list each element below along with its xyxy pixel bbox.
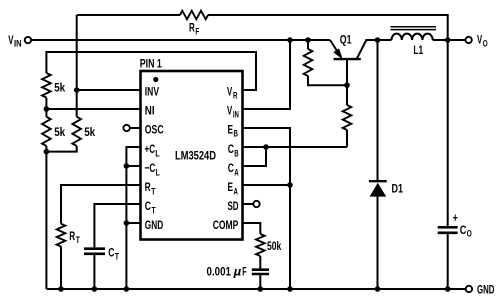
terminal VIN: [25, 37, 31, 43]
label 50k: [267, 239, 281, 253]
label CT: [108, 246, 119, 263]
wire CA to CB: [243, 147, 267, 166]
resistor 5k lower-left: [42, 117, 51, 146]
label PIN 1: [140, 56, 162, 70]
junction CL-ground: [124, 286, 130, 292]
wire EA: [243, 184, 291, 186]
wire -CL stub: [126, 165, 140, 167]
resistor 50k: [256, 234, 265, 256]
wire feedback top from INV node to output node: [77, 15, 448, 40]
svg-text:GND: GND: [477, 283, 495, 297]
junction CO-ground: [445, 286, 451, 292]
svg-text:E: E: [228, 180, 234, 194]
svg-text:PIN 1: PIN 1: [140, 56, 162, 70]
svg-text:µ: µ: [233, 264, 242, 278]
wire NI: [46, 108, 140, 110]
svg-text:O: O: [467, 228, 472, 239]
svg-text:−C: −C: [145, 161, 156, 175]
transistor Q1 emitter arrowhead: [334, 49, 342, 58]
svg-text:T: T: [151, 186, 155, 197]
svg-text:D1: D1: [392, 182, 404, 196]
svg-text:R: R: [69, 229, 75, 243]
svg-text:C: C: [460, 223, 467, 237]
terminal GND: [466, 286, 472, 292]
svg-text:0.001: 0.001: [207, 264, 232, 278]
svg-text:5k: 5k: [54, 80, 65, 94]
svg-text:C: C: [108, 246, 114, 260]
svg-text:T: T: [76, 235, 80, 246]
label RF: [189, 21, 199, 38]
label 5k lower-left: [54, 125, 65, 139]
svg-text:E: E: [228, 122, 234, 136]
svg-text:A: A: [234, 167, 238, 178]
svg-text:IN: IN: [14, 39, 22, 50]
wire RT: [61, 185, 141, 289]
svg-text:50k: 50k: [267, 239, 281, 253]
svg-text:F: F: [195, 27, 199, 38]
pin label OSC: [145, 122, 164, 136]
diode D1 triangle: [370, 183, 387, 197]
junction NI-divider: [44, 106, 50, 112]
resistor 5k upper: [42, 73, 51, 98]
resistor Q1 pull-up: [304, 49, 313, 76]
svg-text:O: O: [483, 38, 488, 49]
junction EA-EB: [287, 182, 293, 188]
junction RT-ground: [58, 286, 64, 292]
wire CT: [94, 204, 140, 289]
pin label VR: [227, 84, 238, 101]
junction D1-ground: [375, 286, 381, 292]
label 0.001 uF: [207, 264, 247, 278]
label L1: [413, 43, 423, 57]
pin label VIN: [227, 103, 239, 120]
label 5k upper: [54, 80, 65, 94]
svg-text:R: R: [233, 91, 238, 102]
junction GND pin: [124, 220, 130, 226]
wire VIN rail: [31, 39, 330, 41]
junction pullup-rail: [305, 37, 311, 43]
junction output node: [445, 37, 451, 43]
junction -CL: [124, 163, 130, 169]
wire CB to Q1 base network: [243, 146, 348, 148]
svg-text:C: C: [228, 161, 234, 175]
svg-text:R: R: [145, 180, 151, 194]
wire base vertical: [346, 60, 348, 148]
junction divider bottom: [44, 149, 50, 155]
svg-text:COMP: COMP: [213, 218, 239, 232]
pin label EA: [228, 180, 238, 197]
svg-text:L1: L1: [413, 43, 423, 57]
svg-text:T: T: [115, 251, 119, 262]
pin label INV: [145, 84, 160, 98]
svg-text:IN: IN: [233, 110, 239, 121]
label CO plus: [453, 211, 458, 225]
label LM3524D: [175, 149, 216, 163]
wire OSC stub: [130, 127, 141, 129]
label CO: [460, 223, 472, 240]
wire COMP: [243, 223, 261, 289]
junction CT-ground: [92, 286, 98, 292]
transistor Q1 collector line: [357, 40, 392, 59]
pin label GND: [145, 218, 163, 232]
wire ground rail: [46, 288, 465, 290]
pin label -CL: [145, 161, 160, 178]
label GND terminal: [477, 283, 495, 297]
svg-text:L: L: [156, 167, 160, 178]
wire L1 to output node: [433, 39, 466, 41]
junction collector-D1: [375, 37, 381, 43]
wire 5k3 bottom to left rail: [46, 146, 76, 152]
resistor 5k lower-right: [72, 117, 81, 146]
capacitor CO plates: [438, 227, 458, 233]
transistor Q1 base bar: [334, 58, 361, 60]
pin label SD: [228, 199, 239, 213]
svg-text:OSC: OSC: [145, 122, 164, 136]
svg-text:SD: SD: [228, 199, 239, 213]
diode D1 cathode bar: [369, 180, 387, 182]
svg-text:GND: GND: [145, 218, 163, 232]
svg-text:A: A: [234, 186, 238, 197]
svg-text:T: T: [152, 205, 156, 216]
svg-text:+: +: [453, 211, 458, 225]
svg-text:Q1: Q1: [340, 33, 352, 47]
wire D1 vertical: [377, 40, 379, 289]
resistor RT: [57, 224, 66, 247]
transistor Q1 emitter line: [330, 40, 341, 57]
svg-text:L: L: [155, 148, 159, 159]
label 5k lower-right: [84, 125, 95, 139]
terminal VO: [465, 37, 471, 43]
label Q1: [340, 33, 352, 47]
junction pullup-base: [344, 82, 350, 88]
wire +CL to ground vertical: [126, 147, 140, 289]
wire EB to ground: [243, 128, 291, 289]
resistor RF: [180, 11, 208, 20]
capacitor 0.001uF: [252, 270, 269, 274]
svg-text:V: V: [227, 103, 233, 117]
svg-text:NI: NI: [145, 103, 155, 117]
label VO: [477, 33, 488, 50]
svg-text:C: C: [145, 199, 151, 213]
svg-text:B: B: [234, 129, 238, 140]
junction comp-cap-ground: [258, 286, 264, 292]
op-amp U1 LM3524D box: [141, 71, 243, 240]
svg-text:R: R: [189, 21, 195, 35]
wire pullup top: [308, 40, 347, 85]
svg-text:F: F: [242, 264, 247, 278]
pin label RT: [145, 180, 156, 197]
wire CO vertical: [447, 40, 449, 289]
svg-text:+C: +C: [145, 142, 156, 156]
wire left rail segment R1-R2: [45, 98, 47, 117]
pin label +CL: [145, 142, 160, 159]
svg-text:5k: 5k: [84, 125, 95, 139]
svg-text:5k: 5k: [54, 125, 65, 139]
svg-text:INV: INV: [145, 84, 160, 98]
junction VIN-rail: [287, 37, 293, 43]
capacitor CT: [84, 249, 105, 254]
svg-text:B: B: [234, 148, 238, 159]
svg-text:LM3524D: LM3524D: [175, 149, 216, 163]
wire VIN pin to rail: [243, 40, 291, 109]
wire VR to 5k divider top: [46, 52, 256, 90]
junction CA-CB: [263, 144, 269, 150]
pin label CA: [228, 161, 239, 178]
terminal SD open circle: [253, 201, 259, 207]
junction INV-feedback: [74, 87, 80, 93]
pin label COMP: [213, 218, 239, 232]
wire GND stub: [126, 222, 140, 224]
pin 1 marker dot: [153, 77, 158, 82]
wire left rail segment R2-ground: [45, 146, 47, 289]
wire INV: [77, 89, 141, 91]
svg-text:V: V: [227, 84, 233, 98]
pin label CT: [145, 199, 156, 216]
wire feedback vertical: [76, 15, 78, 117]
inductor L1 coil: [392, 34, 433, 40]
pin label EB: [228, 122, 238, 139]
svg-text:C: C: [228, 142, 234, 156]
wire SD stub: [243, 203, 254, 205]
label D1: [392, 182, 404, 196]
resistor Q1 base: [343, 105, 352, 130]
junction emitter-ground: [287, 286, 293, 292]
terminal OSC open circle: [123, 125, 129, 131]
pin label CB: [228, 142, 239, 159]
inductor L1 core lines: [391, 27, 437, 30]
label RT: [69, 229, 80, 246]
pin label NI: [145, 103, 155, 117]
label VIN: [8, 33, 21, 50]
